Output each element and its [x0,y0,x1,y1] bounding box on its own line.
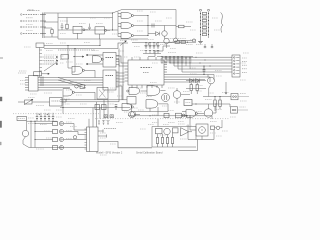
dotted separator left [13,113,100,115]
wire bottom rail [29,147,64,149]
capacitor bank lower bars [145,50,147,52]
svg-text:+5V In: +5V In [27,9,35,12]
gate U2A [121,13,132,19]
wire text row mid [58,49,95,51]
wire mid row [186,88,206,90]
CPU U7 left pins [125,62,129,64]
connector J4 lead [238,109,249,111]
wire opamp out [189,131,192,133]
resistor R4 [175,41,180,43]
edge mark B [0,121,2,128]
brace bracket [221,13,223,33]
wire led to U15 row1 [67,124,87,131]
RN1 pin circles [200,9,202,11]
resistor R7 [196,85,198,91]
label text clutter 2 [134,46,140,48]
resistor R11 [161,138,163,144]
CPU U7 box LH77 [128,60,164,85]
resistor R6 [190,85,192,91]
wire CPU right bus [167,74,214,76]
crystal Y3 box [196,124,208,136]
label text J3 [240,93,246,95]
component K12 box [211,126,215,130]
label text J4 [240,106,246,108]
oscillator OSC1 box [36,43,44,48]
connector J3 [231,94,238,100]
wire serial feed [157,119,159,127]
edge mark A [0,97,2,101]
plus marks row [39,113,41,115]
or gate U11 [146,100,158,108]
or gate U9 [129,87,140,94]
transistor Q3 [173,91,181,99]
DCDC U14 box [50,98,63,107]
resistor network RN1 rails [200,12,202,38]
resistor fan RN2 [165,58,167,63]
IC U15 left pins [85,128,87,130]
wire serial top rail [152,126,196,128]
component K14 box [61,55,69,60]
resistor network RN1 elements [202,12,206,14]
connector J1 pin-row labels [21,14,23,16]
wire gate row [192,103,230,105]
inverter U1B [95,27,105,34]
capacitor bank C4-C7 [145,43,147,46]
label text clutter [60,20,68,22]
gate U2B [121,23,132,29]
wire second rail [58,17,113,19]
wire stub under U1B [99,34,101,39]
component K15 box [104,115,108,118]
wire gate input rail [117,12,119,37]
resistor R8 [214,97,216,101]
wire serial bottom rail [152,146,196,148]
crystal Y5 [130,112,136,118]
capacitor C15 [204,44,206,47]
CPU U7 top pins [131,57,133,60]
IC U15 box [87,127,99,152]
resistor R10 [156,138,158,144]
or gate U10 [147,86,160,96]
component K5 box [102,105,107,110]
wire rails down [118,49,120,102]
signal arrows into U5 [86,54,103,56]
fuse F1 [25,100,33,104]
component circle K7 [73,136,76,139]
pin hatch [40,77,42,87]
capacitor C3 [151,24,153,28]
wire Y3 long tail [178,140,198,151]
wire down arrow [225,82,227,93]
wire U6 to CPU pins [116,72,125,74]
wire fuse to dcdc [32,101,50,103]
led driver row 1 [35,123,53,125]
wire osc row [58,29,118,31]
resistor fan extra marks [161,58,163,63]
diode D2 [190,79,194,83]
capacitor C1 [61,23,63,26]
wire U15 to serial board [98,142,152,148]
wire led top rail [27,120,58,122]
diode D3 [196,79,200,83]
wire bus lower B [60,101,119,103]
wire staircase [148,46,170,57]
wire bus U4 to U6 [38,77,103,79]
crystal X1 box [97,88,108,100]
wire U5 to CPU B [116,60,125,67]
wire J1 low [44,36,58,38]
wire cap return [143,53,161,55]
IC pin stubs right [116,55,119,57]
wire to right edge [148,25,176,27]
resistor R1 [44,27,52,29]
wire verticals into U15 [88,119,90,127]
wire diagonal cross A [58,78,86,86]
led driver row 3 [35,139,53,141]
wire led to U15 row3 [67,139,87,141]
wire resistor row top [169,41,196,43]
wire Q5 link [215,104,217,113]
capacitor row C10-C14 [36,113,38,117]
signal stub INT [43,63,55,65]
component K9 box [173,128,179,133]
component K11 [176,113,182,118]
wire top rail from J1 [44,12,113,14]
arrow marker [186,115,188,117]
wire U6 zigzag down [116,86,122,100]
wire osc feedback [112,13,114,30]
wire dcdc out [62,101,66,103]
CPU U7 label [141,67,152,69]
diode D1 [156,32,160,36]
component K13 circle [216,126,219,129]
wire diode row right [186,80,206,82]
transistor Q7 [164,128,170,134]
wire led to U15 row2 [67,132,87,135]
component K3 box [80,85,85,89]
wire stub under U1A [77,33,79,39]
edge mark D [0,57,3,59]
resistor R2 [66,18,68,25]
op-amp U16 [181,128,189,136]
label text CRT Conn [104,128,116,130]
component K16 box [110,115,114,118]
wire top bend to upper rail [113,10,123,14]
resistor R3 [176,26,179,28]
dotted separator right [95,118,229,120]
label text above U4 [19,70,27,72]
wire diagonal arrow top [120,41,126,46]
IC U5 box [103,53,116,68]
signal stub CLK [43,60,55,62]
wire U8B out [197,113,204,115]
wire rail hook [211,116,213,119]
wire J1 mid [44,21,58,23]
resistor R5 [181,41,186,43]
transistor Q4 [22,130,28,136]
wire Y3 loop [188,139,214,141]
edge mark C [0,142,1,145]
transistor Q2 [208,77,215,84]
IC U4 left pins [25,77,29,79]
wire serial right rail [195,127,197,140]
connector J1 header [27,9,40,11]
wire led to U15 row4 [67,147,87,149]
wire fan rail [157,56,193,58]
wire U11 out [158,103,168,105]
wire diagonal [44,62,58,72]
label text RN1 [190,39,196,41]
svg-text:Serial Calibration Board: Serial Calibration Board [136,151,163,154]
led driver row 4 [53,146,58,150]
wire bus lower C [60,107,130,109]
transistor Q6 [164,38,169,43]
wire to J3 [203,96,231,98]
ground GND1 [200,38,202,41]
wire decoupling rail [132,42,172,44]
wire U15 right B [98,135,106,137]
transistor pair circles [174,38,178,42]
capacitor C8 [203,66,205,69]
led driver row 2 [35,131,53,133]
wire long bus B [44,48,118,50]
transistor Q5 [204,109,212,117]
wire arrow mid [73,56,74,57]
and gate U8B [186,110,195,118]
wire riser x100 [99,39,101,46]
connector J3 lead [238,96,249,98]
wire U5 to CPU A [116,56,125,63]
resistor R12 [166,138,168,144]
wire U12A out [74,91,95,93]
wire left drop [62,96,64,114]
wire diagonal cross B [58,80,86,88]
nand gate U3 [72,66,83,74]
wire right rail [175,10,177,39]
crystal Y4 [129,112,135,118]
capacitor row small C17-C19 [98,120,100,122]
transistor Q1 [162,31,167,36]
wire U9 out [141,90,148,92]
and gate U12A [63,89,72,96]
wire lower link [167,104,169,112]
component K10 box [164,113,169,117]
wire bus lower A [60,99,127,101]
wire long bus A [44,45,100,47]
wire step to caps [118,43,128,49]
bus junction dots [200,63,201,64]
gate U2C [121,33,132,39]
capacitor C2 [89,24,91,28]
wire U11A link [131,104,133,112]
wire power input [18,101,25,103]
wire Q3 links [181,94,190,96]
wire Y3 left feed [189,117,191,130]
or gate U13 [122,103,131,110]
wire U3 output [85,69,96,71]
connector J2 [232,55,240,77]
inverter U1A [73,26,82,33]
connector J2 labels [242,57,247,59]
component K4 box [95,105,100,110]
IC U4 box [29,76,39,92]
capacitor C9 [115,104,118,106]
buffer gate U17 [93,56,102,63]
component circle K2 [75,85,79,89]
capacitor C16 [211,44,213,47]
wire U15 right A [98,130,103,132]
component U11A box [127,97,136,105]
wire osc rail [39,48,41,78]
wire bottom section rail [128,115,212,117]
wire gate outputs to rail [134,15,148,17]
wire diode row [150,33,156,35]
wire U10 out [160,90,165,92]
CPU U7 right pins [164,61,167,63]
wire K13 drop [221,120,223,128]
wire serial left rail [151,127,153,148]
component U8A box [184,100,192,106]
plus marks [148,43,150,45]
label text left [18,72,26,74]
IC U6 box [103,70,116,90]
resistor R9 [219,97,221,101]
wire stub from above [157,107,159,116]
wire bus lines to J2 [161,56,163,59]
oscillator Y2 [162,94,170,102]
svg-text:Modell - EFIS Version 2: Modell - EFIS Version 2 [96,151,123,154]
resistor R13 [171,138,173,144]
wire bottom rail [58,38,148,40]
CPU U7 bottom pins [131,85,133,88]
wire vertical led rails [26,121,28,130]
label K6 box [17,117,27,121]
wire left rail [57,13,59,39]
connector J4 [231,107,238,113]
wire rail to dotted [107,100,109,119]
component K1 box [34,72,42,76]
component K8 box [156,128,163,134]
signal stub RES [43,56,55,58]
